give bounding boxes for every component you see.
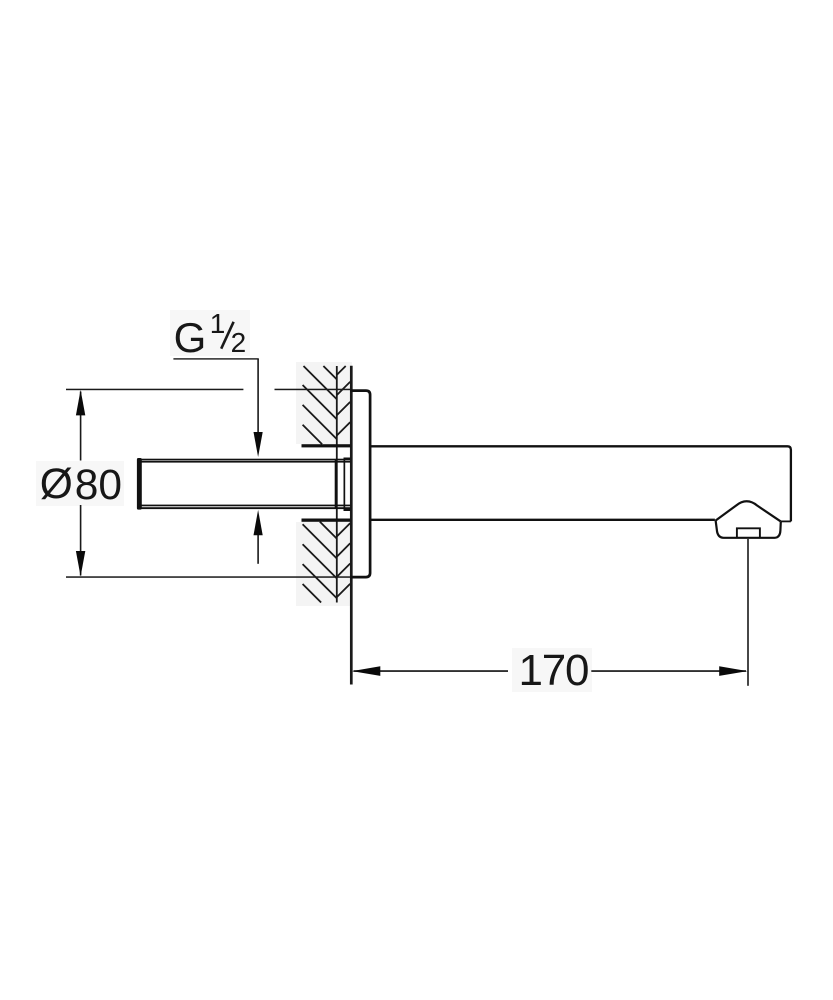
dim 170 right arrow [719,666,747,676]
wall hole bottom edge [302,519,351,522]
spout tube top and right edge [370,446,791,521]
dim 170 left arrow [352,666,380,676]
collar top edge [344,458,351,460]
scan noise around dimension text Ø 80 [36,461,124,506]
scan noise over wall band [296,362,352,444]
thread end line [335,459,337,509]
dim Ø80 top extension line [66,389,350,578]
dim Ø80 dimension line lower segment [80,505,82,576]
wall face line [350,366,353,685]
dimension text 80 [75,470,122,501]
dim 170 right extension line [354,539,749,686]
dim Ø80 bottom arrow [76,551,85,576]
dim Ø80 bottom extension line [66,576,350,578]
flange [350,391,370,577]
aerator dome [716,501,781,521]
scan noise around dimension text 170 [512,648,592,692]
threaded inlet pipe [137,458,351,512]
pipe bottom thread root line [137,505,350,507]
thread runout line [344,458,346,510]
aerator outlet rectangle [737,528,760,537]
dim 170 dimension line right segment [591,670,746,672]
wall hatch right diagonals [337,366,350,597]
label text 1 (numerator) [210,314,226,334]
dimension text 170 [519,655,589,686]
fraction slash of G 1/2 [221,322,233,349]
dim Ø80 top arrow [76,390,85,416]
wall hatch left diagonals [303,366,337,603]
collar bottom edge [344,509,351,511]
G 1/2 down arrow [254,432,263,457]
scan noise around label G 1/2 [170,310,250,356]
pipe top thread outer line [137,459,350,461]
label G 1/2 leader underline [173,358,259,564]
scan noise over wall band lower part [296,522,352,606]
wall hatch spine [336,366,338,603]
spout tube bottom line [370,519,715,521]
G 1/2 up arrow [254,510,263,535]
label text 2 (denominator) [231,333,247,353]
dimension text Ø 80 [40,469,73,500]
pipe left end cap [137,458,142,510]
pipe bottom thread outer line [137,507,350,509]
label text G [174,323,207,353]
dim Ø80 dimension line upper segment [80,392,82,461]
wall hole top edge [302,444,351,447]
lower leader line below pipe [257,535,259,564]
dim 170 dimension line left segment [354,670,509,672]
pipe top thread root line [137,461,350,463]
spout tube bottom right segment [781,520,791,522]
aerator housing outline [716,520,781,537]
label G 1/2 leader vertical line [257,359,259,433]
